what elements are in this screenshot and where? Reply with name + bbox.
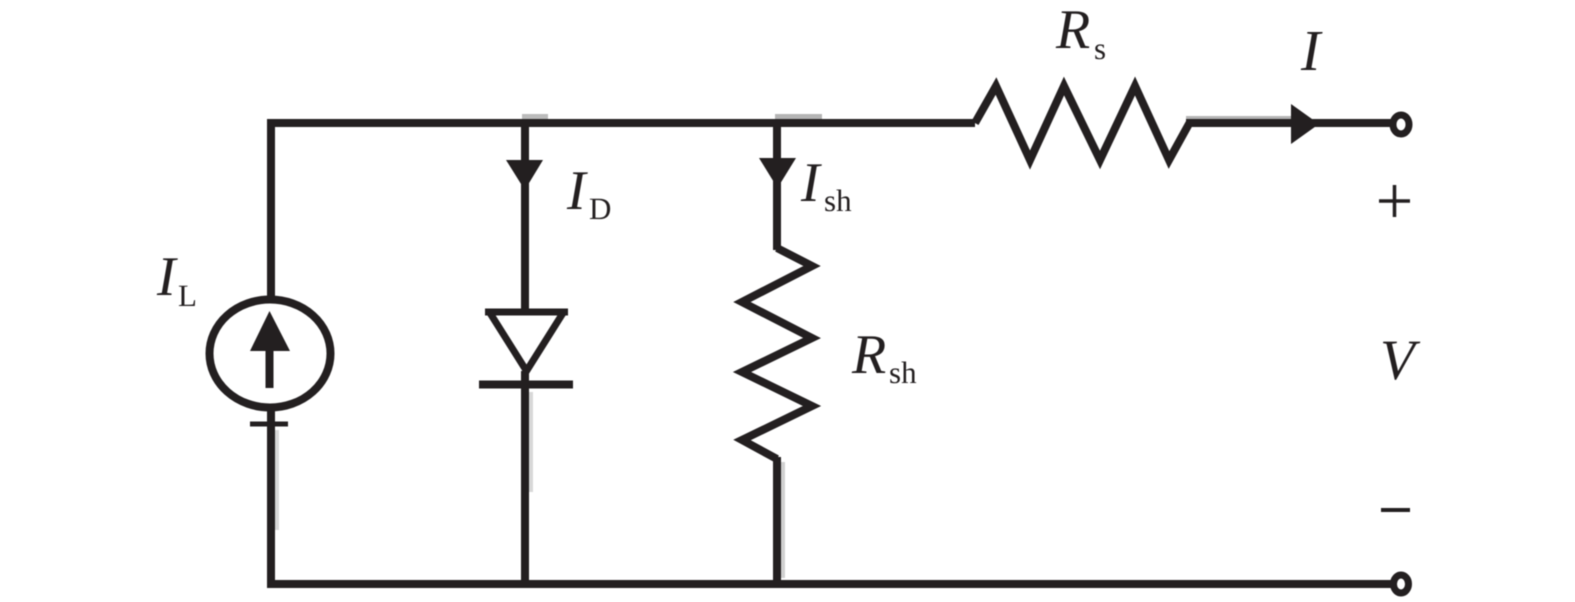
current source IL circle <box>210 300 331 408</box>
top wire <box>267 119 975 127</box>
scan ghost right of diode branch lower <box>529 392 533 492</box>
wire (diode branch upper) <box>521 119 529 312</box>
arrow Ish <box>759 158 796 188</box>
arrow ID <box>506 160 543 190</box>
scan ghost above output wire <box>1186 116 1298 120</box>
terminal top <box>1393 115 1409 134</box>
svg-text:R: R <box>1055 0 1090 61</box>
resistor Rs <box>975 86 1190 160</box>
svg-text:sh: sh <box>889 355 917 390</box>
diode D1 top bar <box>485 309 568 316</box>
scan ghost above wire at shunt junction <box>775 114 822 119</box>
svg-text:I: I <box>566 160 588 222</box>
svg-text:V: V <box>1380 329 1421 392</box>
svg-text:I: I <box>1300 18 1323 83</box>
output wire <box>1186 119 1391 127</box>
scan ghost above wire at diode junction <box>522 114 548 119</box>
minus sign <box>1381 508 1410 512</box>
bottom wire <box>267 580 1392 588</box>
wire (left vertical, top half) <box>267 119 275 300</box>
diode D1 triangle sides <box>490 313 563 371</box>
plus sign <box>1379 185 1410 217</box>
current source arrow <box>250 311 290 351</box>
wire (shunt branch lower) <box>773 457 781 584</box>
svg-text:L: L <box>178 278 197 313</box>
scan ghost right of shunt branch lower <box>781 462 785 578</box>
resistor Rsh <box>742 248 812 459</box>
svg-text:R: R <box>851 324 886 386</box>
arrow I <box>1291 104 1319 144</box>
svg-text:I: I <box>800 152 822 214</box>
wire (shunt branch upper) <box>773 119 781 250</box>
diode D1 cathode bar <box>479 381 573 389</box>
svg-text:D: D <box>589 191 611 226</box>
scan ghost right of source branch lower <box>275 430 279 530</box>
terminal bottom <box>1394 575 1409 593</box>
current source bottom tick <box>250 422 288 427</box>
svg-text:sh: sh <box>824 183 852 218</box>
wire (diode branch lower) <box>521 371 529 584</box>
svg-text:I: I <box>156 246 178 308</box>
svg-text:s: s <box>1094 31 1106 66</box>
wire (left vertical, bottom half) <box>267 407 275 588</box>
